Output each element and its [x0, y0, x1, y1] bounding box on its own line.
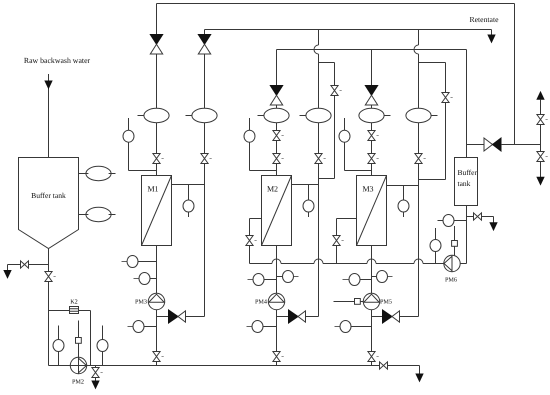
wire top header line — [157, 3, 515, 5]
svg-text:PM5: PM5 — [380, 299, 392, 306]
svg-text:K2: K2 — [70, 299, 78, 306]
pump ellipse M1 feed — [138, 115, 144, 117]
node manifold drain arrow — [416, 374, 423, 381]
svg-text:M2: M2 — [267, 185, 278, 194]
node far right arrow down — [537, 177, 544, 184]
pump PM5 — [363, 293, 379, 309]
instrument circle right of PM2 — [102, 326, 104, 366]
valve M3 left port — [333, 236, 344, 246]
wire recirc M2 side branch — [319, 63, 335, 179]
instrument circle M3 feed — [345, 118, 372, 171]
instrument circle M3 pump bottom — [335, 326, 341, 328]
wire buffer tank 2 bottom — [466, 206, 468, 264]
pump ellipse recirc M1 — [186, 115, 192, 117]
valve M3 feed upper — [368, 131, 379, 141]
valve M2 bottom — [273, 352, 284, 362]
valve M3 feed lower — [368, 154, 379, 164]
pump PM6 — [444, 255, 460, 271]
wire PM4 discharge — [277, 316, 319, 318]
check valve to distribution — [467, 144, 485, 146]
check valve PM4 — [289, 310, 306, 323]
instrument circle left of PM2 — [58, 326, 60, 366]
wire recirc column M1 — [204, 30, 206, 317]
wire PM3 discharge — [157, 316, 205, 318]
valve recirc M3 side — [442, 93, 453, 103]
wire M3 concentrate down — [371, 246, 373, 366]
wire retentate outlet stub — [491, 30, 493, 36]
instrument circle M2 permeate — [308, 185, 310, 218]
pump ellipse tank1 upper — [79, 173, 116, 175]
svg-text:Buffer tank: Buffer tank — [31, 191, 66, 200]
wire buffer tank 2 top — [466, 145, 468, 158]
svg-text:M3: M3 — [362, 185, 373, 194]
svg-text:tank: tank — [458, 179, 471, 188]
hop over M3 feed — [367, 259, 376, 264]
wire M3 feed column — [371, 50, 373, 176]
instrument circle M1 feed — [129, 118, 157, 171]
wire K2 branch — [49, 311, 91, 366]
pump PM2 — [70, 357, 86, 373]
buffer tank 2 — [455, 158, 478, 206]
valve manifold inline — [380, 362, 388, 369]
wire M1 concentrate down — [156, 246, 158, 366]
component K2 — [70, 307, 79, 314]
hop over M3 recirc — [414, 259, 423, 264]
wire PM2 suction stub with dosing square — [78, 321, 80, 358]
wire M1 permeate — [172, 184, 205, 186]
node far right arrow up — [537, 92, 544, 99]
valve tank1 outlet — [45, 272, 56, 282]
instrument circle M2 feed — [250, 118, 277, 171]
wire BT2 drain branch — [467, 217, 494, 223]
instrument circle left of BT2 — [438, 220, 467, 222]
node tank1 drain arrow — [4, 271, 11, 278]
instrument circle M2 pump right — [277, 276, 283, 278]
wire cross-collector line y=263.5 — [250, 263, 444, 265]
component dosing square PM5 — [355, 299, 361, 305]
node retentate outlet arrow — [488, 35, 495, 42]
wire second header line — [277, 49, 467, 51]
valve tank1 drain — [21, 261, 29, 268]
valve PM2 drain — [92, 368, 103, 378]
node raw water arrow — [45, 81, 52, 88]
membrane module M2 — [262, 176, 292, 246]
check valve PM3 — [169, 310, 186, 323]
wire M2 left port with valve — [250, 219, 262, 264]
svg-text:PM6: PM6 — [445, 277, 457, 284]
wire recirc column M2 with hop over second header — [314, 30, 319, 317]
check valve PM5 — [383, 310, 400, 323]
control valve M3 — [365, 86, 377, 106]
valve far right lower — [537, 152, 548, 162]
instrument circle M2 pump bottom — [247, 326, 253, 328]
valve M2 left port — [246, 236, 257, 246]
valve recirc M2 — [315, 154, 326, 164]
wire PM6 dosing stub — [454, 226, 456, 255]
svg-text:PM4: PM4 — [255, 299, 267, 306]
wire PM6 to tank riser — [460, 263, 466, 265]
svg-text:Retentate: Retentate — [469, 15, 499, 24]
membrane module M1 — [142, 176, 172, 246]
wire M1 feed column — [156, 4, 158, 176]
wire right down from top header — [514, 4, 516, 145]
valve recirc M3 — [415, 154, 426, 164]
node BT2 drain arrow — [490, 223, 497, 230]
wire right header drop to buffer tank 2 — [466, 50, 468, 145]
pump PM4 — [268, 293, 284, 309]
svg-text:Raw backwash water: Raw backwash water — [24, 56, 91, 65]
wire recirc column M3 with hop over second header — [414, 30, 419, 317]
wire bottom manifold — [49, 366, 420, 375]
instrument circle M3 permeate — [403, 186, 405, 218]
valve M1 bottom — [153, 352, 164, 362]
svg-text:PM2: PM2 — [72, 379, 84, 386]
instrument circle PM6 suction — [435, 228, 437, 264]
hop over M2 feed — [272, 259, 281, 264]
valve M2 feed lower — [273, 154, 284, 164]
instrument circle M3 pump right — [372, 276, 377, 278]
valve M3 bottom — [368, 352, 379, 362]
control valve M2 — [270, 86, 282, 106]
wire tank1 outlet — [48, 249, 50, 366]
component dosing square PM2 — [76, 338, 82, 344]
wire PM5 suction line with dosing square — [334, 301, 364, 303]
wire raw water feed — [48, 74, 50, 157]
valve recirc M2 side — [331, 86, 342, 96]
valve recirc M1 — [201, 154, 212, 164]
instrument circle M1 pump lower — [134, 278, 140, 280]
wire tank1 drain branch — [8, 265, 49, 271]
instrument circle M1 pump bottom — [128, 326, 134, 328]
wire far right column — [540, 99, 542, 177]
pump ellipse M2 feed — [258, 115, 264, 117]
wire M2 feed column — [276, 50, 278, 176]
valve BT2 drain — [474, 213, 482, 220]
wire M2 permeate — [292, 184, 319, 186]
membrane module M3 — [357, 176, 387, 246]
instrument circle M1 pump upper — [122, 261, 128, 263]
buffer tank 1 — [19, 158, 79, 249]
svg-text:M1: M1 — [147, 185, 158, 194]
wire M2 concentrate down — [276, 246, 278, 366]
instrument circle M2 pump left — [248, 279, 254, 281]
valve far right upper — [537, 115, 548, 125]
node PM2 drain arrow — [92, 381, 99, 388]
pump ellipse recirc M2 — [300, 115, 306, 117]
pump ellipse M3 feed — [384, 115, 390, 117]
hop over M2 recirc — [314, 259, 323, 264]
pump ellipse recirc M3 — [431, 115, 437, 117]
wire recirc M3 side branch — [419, 63, 446, 180]
svg-text:Buffer: Buffer — [458, 168, 478, 177]
pump PM3 — [148, 293, 164, 309]
valve M2 feed upper — [273, 131, 284, 141]
wire PM2 drain branch — [95, 366, 97, 382]
component dosing square PM6 — [452, 241, 458, 247]
wire M3 permeate — [387, 185, 419, 187]
wire PM5 discharge — [372, 316, 419, 318]
control valve V1 — [150, 35, 162, 55]
valve M1 feed — [153, 154, 164, 164]
svg-text:PM3: PM3 — [135, 299, 147, 306]
control valve V2 — [198, 35, 210, 55]
wire retentate header line — [205, 29, 492, 31]
pump ellipse tank1 lower — [79, 214, 116, 216]
instrument circle M3 pump left — [343, 279, 350, 281]
instrument circle M1 permeate — [188, 185, 190, 218]
wire M3 left port with valve — [337, 219, 357, 264]
